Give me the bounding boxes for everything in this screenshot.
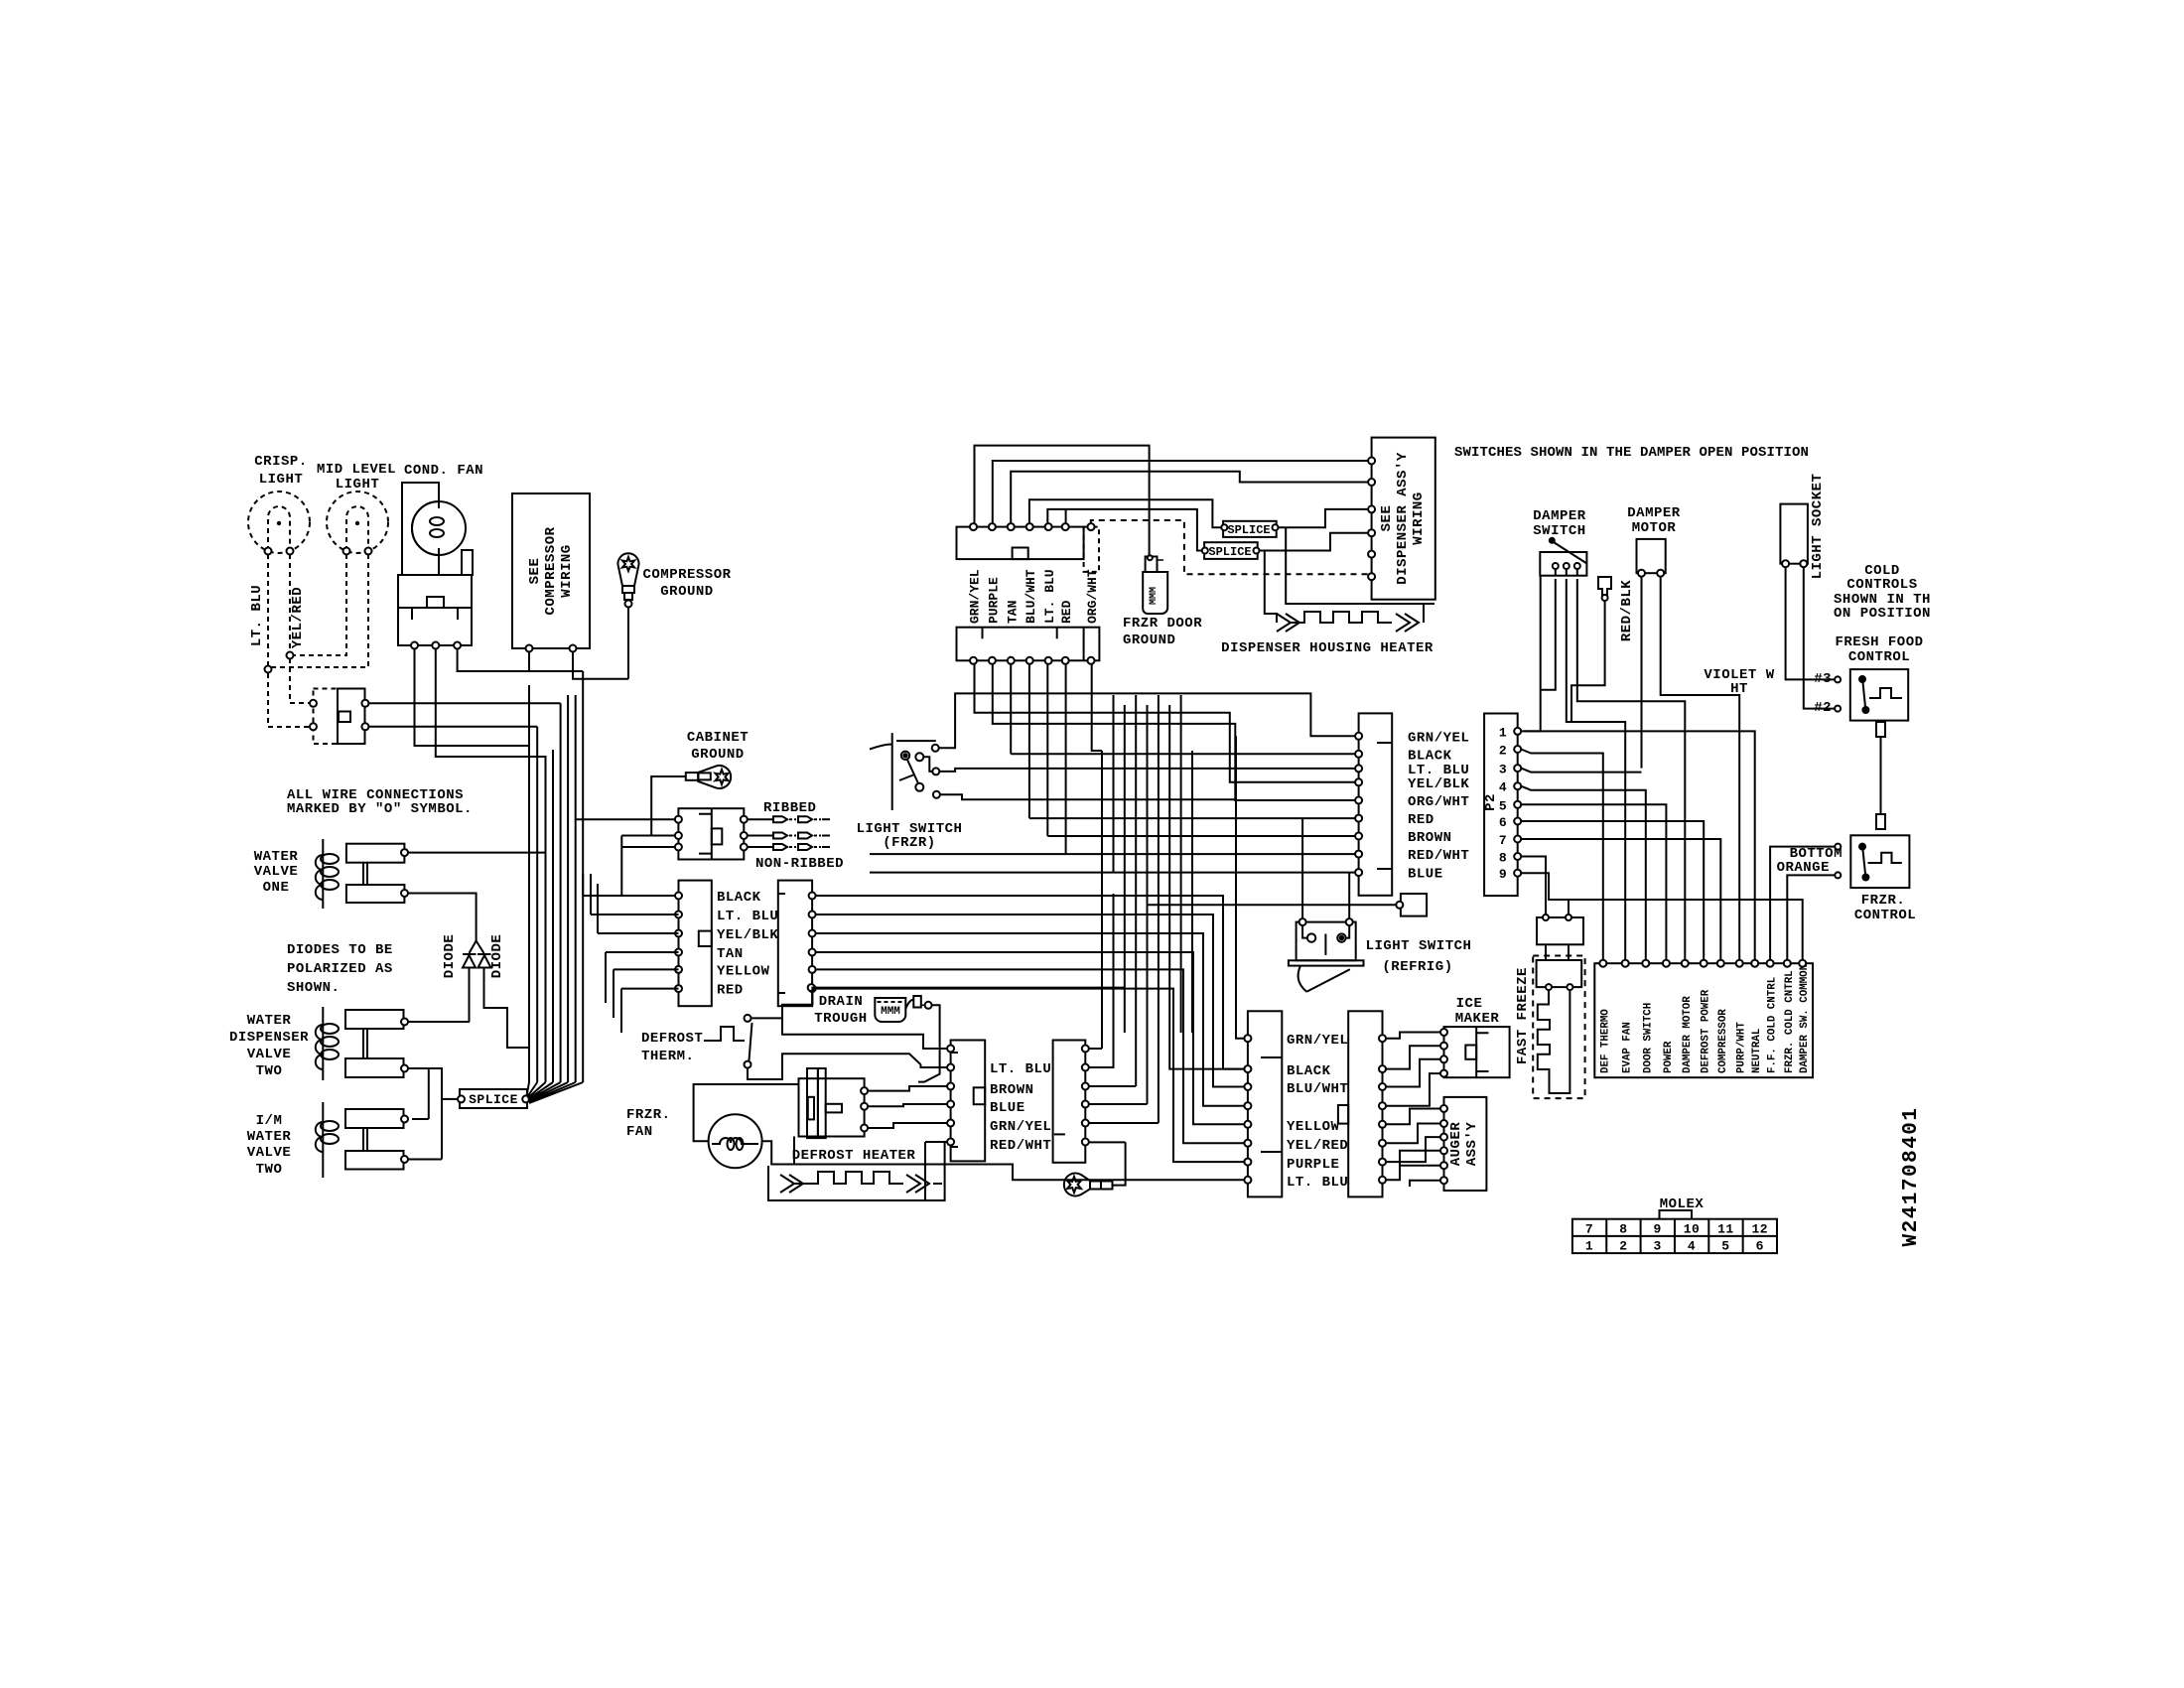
svg-text:2: 2 [1619, 1239, 1627, 1254]
molex table [1572, 1219, 1777, 1253]
evap conn right terminal 2 [1082, 1064, 1089, 1071]
P2 pin 7 number [1499, 833, 1507, 848]
wire c7 down [1092, 664, 1102, 751]
freezer harness right terminal 1 [1379, 1035, 1386, 1042]
board pin label FRZR. COLD CNTRL [1784, 970, 1796, 1073]
wire evap out 4 [1089, 1103, 1148, 1105]
i/m water valve two terminal 2 [401, 1156, 408, 1163]
P2 pin 2 terminal [1514, 746, 1521, 753]
ribbed conn terminal L1 [675, 816, 682, 823]
board pin terminal DEF THERMO [1599, 960, 1606, 967]
wire bundle splice fan [527, 1082, 584, 1103]
relay terminal 3 [454, 642, 461, 649]
svg-text:POWER: POWER [1663, 1041, 1675, 1073]
wire damper sw t3b [1577, 579, 1686, 960]
svg-text:WIRING: WIRING [1411, 492, 1427, 544]
board pin label DAMPER SW. COMMON [1799, 964, 1811, 1073]
P2 pin 5 number [1499, 798, 1507, 813]
molex cell 11 [1717, 1222, 1734, 1237]
control board box [1594, 963, 1813, 1077]
dispenser box terminal 3 [1368, 505, 1375, 512]
frzr control box [1850, 835, 1909, 888]
node therm junction [808, 984, 815, 991]
svg-text:DIODES TO BE: DIODES TO BE [287, 942, 393, 958]
splice 1 terminal L [1221, 524, 1227, 530]
wire branch yellow [614, 969, 679, 1018]
svg-text:DOOR SWITCH: DOOR SWITCH [1642, 1003, 1654, 1073]
switch terminal left 2 [310, 723, 317, 730]
wire splice2 to disp [1260, 533, 1369, 551]
svg-text:DAMPER MOTOR: DAMPER MOTOR [1682, 996, 1694, 1073]
evap connector terminal 6 [947, 1139, 954, 1146]
wire p2 pin3 [1521, 769, 1641, 773]
wire bundle verticals [529, 671, 583, 1082]
water valve one terminal 2 [401, 890, 408, 897]
molex cell 4 [1688, 1239, 1696, 1254]
wire harness row8 [870, 853, 1355, 855]
wire im 1 [1386, 1033, 1440, 1039]
damper switch label [1533, 508, 1586, 539]
door harness terminal 8 [1355, 851, 1362, 858]
svg-text:LT. BLU: LT. BLU [717, 909, 778, 924]
see dispenser assy wiring box [1372, 438, 1435, 600]
auger terminal 4 [1440, 1147, 1447, 1154]
wire au 2 [1386, 1124, 1440, 1144]
cond fan label [404, 463, 483, 479]
freezer harness left terminal 6 [1244, 1140, 1251, 1147]
svg-text:12: 12 [1751, 1222, 1768, 1237]
wire im 2 [1386, 1046, 1440, 1068]
svg-text:COND. FAN: COND. FAN [404, 463, 483, 479]
svg-text:SWITCH: SWITCH [1533, 523, 1585, 539]
water dispenser valve two terminal 1 [401, 1019, 408, 1026]
switch terminal right 1 [361, 700, 368, 707]
light switch refrig label [1366, 938, 1472, 954]
P2 pin 1 number [1499, 725, 1507, 740]
svg-text:W241708401: W241708401 [1900, 1106, 1923, 1246]
top conn wire label PURPLE [986, 577, 1001, 624]
svg-text:WATER: WATER [247, 1129, 292, 1145]
door harness terminal 3 [1355, 765, 1362, 772]
evap connector terminal 5 [947, 1120, 954, 1127]
svg-text:LIGHT SWITCH: LIGHT SWITCH [1366, 938, 1472, 954]
svg-text:ORG/WHT: ORG/WHT [1408, 794, 1469, 810]
evap connector terminal 4 [947, 1101, 954, 1108]
drain trough heater [875, 996, 931, 1022]
board pin label DOOR SWITCH [1642, 1003, 1654, 1073]
node crisp-mid junction A [287, 652, 294, 659]
wire top t2 to disp [993, 461, 1369, 523]
light switch frzr symbol [870, 733, 940, 810]
note all wire connections [287, 787, 473, 817]
board pin label DEF THERMO [1599, 1009, 1611, 1073]
light socket terminal 2 [1800, 560, 1807, 567]
frzr control label [1854, 893, 1916, 923]
top conn wire label GRN/YEL [968, 569, 983, 624]
door harness terminal 5 [1355, 797, 1362, 804]
dispenser housing heater label [1221, 640, 1433, 656]
frzr fan label [626, 1107, 671, 1140]
wire yel/blk run [816, 933, 1245, 1106]
auger terminal 3 [1440, 1134, 1447, 1141]
svg-text:SEE: SEE [527, 558, 543, 585]
wire harness row7 [1047, 835, 1355, 837]
svg-text:TAN: TAN [1005, 601, 1020, 624]
wire disp heater left [1265, 551, 1277, 624]
svg-text:THERM.: THERM. [641, 1049, 694, 1064]
svg-text:4: 4 [1688, 1239, 1696, 1254]
ice maker label [1455, 996, 1500, 1027]
wire harness row6 [1029, 817, 1355, 819]
P2 pin 8 number [1499, 851, 1507, 866]
ice maker terminal 3 [1440, 1055, 1447, 1062]
cabinet light switch dashed box [314, 689, 339, 745]
evap connector terminal 2 [947, 1064, 954, 1071]
door harness terminal 6 [1355, 815, 1362, 822]
node crisp-mid junction B [265, 666, 272, 673]
wire valve2 bottom right 2 [408, 1068, 442, 1160]
svg-text:3: 3 [1654, 1239, 1662, 1254]
P2 pin 5 terminal [1514, 801, 1521, 808]
defrost heater block terminal 3 [861, 1125, 868, 1132]
svg-text:RED/WHT: RED/WHT [1408, 848, 1469, 864]
svg-text:VALVE: VALVE [247, 1145, 292, 1161]
wire harness row2 [1011, 753, 1355, 755]
red/blk label [1619, 580, 1635, 641]
board pin terminal DOOR SWITCH [1642, 960, 1649, 967]
dispenser housing heater element [1277, 612, 1419, 632]
wire valve2 bottom right [408, 1068, 429, 1119]
pre fast-freeze box [1537, 917, 1583, 944]
dispenser door conn top terminal 5 [1045, 523, 1052, 530]
P2 pin 7 terminal [1514, 836, 1521, 843]
svg-text:1: 1 [1585, 1239, 1593, 1254]
board pin label EVAP FAN [1622, 1022, 1634, 1073]
fast freeze terminal 2 [1567, 984, 1572, 990]
harness conn right terminal 6 [809, 985, 816, 992]
wire heater t1 right [868, 1086, 947, 1091]
wire evap out 1 [1089, 1048, 1102, 1050]
wire ribbed conn left feeds [575, 819, 675, 835]
svg-text:NEUTRAL: NEUTRAL [1751, 1029, 1763, 1073]
harness wire labels [717, 890, 778, 999]
see compressor terminal 2 [570, 645, 577, 652]
fast freeze label [1515, 967, 1531, 1064]
wire splice1 to disp [1279, 509, 1434, 604]
ribbed conn terminal L3 [675, 844, 682, 851]
evap conn right terminal 4 [1082, 1101, 1089, 1108]
svg-text:9: 9 [1654, 1222, 1662, 1237]
diode 1 label [442, 934, 458, 979]
top conn wire label LT. BLU [1042, 569, 1057, 624]
ice maker terminal 1 [1440, 1029, 1447, 1036]
harness conn right terminal 4 [809, 949, 816, 956]
svg-text:7: 7 [1499, 833, 1507, 848]
P2 pin 3 number [1499, 763, 1507, 777]
P2 pin 8 terminal [1514, 853, 1521, 860]
wire heater elem right up [944, 1142, 946, 1184]
light socket terminal 1 [1782, 560, 1789, 567]
svg-text:LIGHT: LIGHT [336, 477, 380, 492]
svg-text:TAN: TAN [717, 946, 744, 962]
top conn wire label RED [1059, 600, 1074, 624]
svg-text:11: 11 [1717, 1222, 1734, 1237]
splice box top 1 [1223, 521, 1277, 537]
molex cell 7 [1585, 1222, 1593, 1237]
P2 box [1484, 714, 1518, 897]
svg-text:PURPLE: PURPLE [986, 577, 1001, 624]
i/m water valve two label [247, 1113, 292, 1178]
evap connector terminal 1 [947, 1046, 954, 1053]
dispenser box terminal 5 [1368, 551, 1375, 558]
svg-text:BROWN: BROWN [1408, 830, 1452, 846]
svg-text:CONTROL: CONTROL [1854, 908, 1916, 923]
freezer harness left terminal 1 [1244, 1035, 1251, 1042]
violet wht label [1704, 667, 1774, 697]
svg-text:6: 6 [1756, 1239, 1764, 1254]
svg-text:RED/WHT: RED/WHT [990, 1138, 1051, 1154]
wire branch tan [606, 952, 679, 1003]
svg-text:DRAIN: DRAIN [819, 994, 864, 1010]
svg-text:4: 4 [1499, 780, 1507, 795]
evap connector labels [990, 1061, 1051, 1154]
wire au 3 [1386, 1137, 1440, 1162]
svg-text:DAMPER: DAMPER [1627, 505, 1681, 521]
svg-text:1: 1 [1499, 725, 1507, 740]
damper motor box [1637, 539, 1666, 573]
wire im 4 [1386, 1073, 1440, 1106]
freezer harness left terminal 8 [1244, 1177, 1251, 1184]
svg-text:WATER: WATER [254, 849, 299, 865]
wire evap out 6 [1089, 1141, 1126, 1143]
svg-text:8: 8 [1499, 851, 1507, 866]
svg-text:(FRZR): (FRZR) [883, 835, 935, 851]
wire im 3 [1386, 1059, 1440, 1087]
see dispenser assy text [1379, 452, 1427, 585]
splice left terminal [458, 1095, 465, 1102]
svg-text:PURP/WHT: PURP/WHT [1736, 1022, 1748, 1073]
svg-text:LT. BLU: LT. BLU [249, 585, 265, 646]
svg-text:FRZR.: FRZR. [626, 1107, 671, 1123]
fast freeze terminal 1 [1546, 984, 1552, 990]
harness conn left terminal 4 [675, 949, 682, 956]
svg-text:LT. BLU: LT. BLU [990, 1061, 1051, 1077]
molex cell 2 [1619, 1239, 1627, 1254]
freezer harness right terminal 2 [1379, 1065, 1386, 1072]
svg-text:ORANGE: ORANGE [1777, 860, 1830, 876]
i/m water valve two terminal 1 [401, 1116, 408, 1123]
freezer harness right terminal 3 [1379, 1083, 1386, 1090]
wire switch out1 right [368, 702, 560, 704]
svg-text:DISPENSER ASS'Y: DISPENSER ASS'Y [1395, 452, 1411, 585]
svg-text:BLU/WHT: BLU/WHT [1024, 569, 1038, 624]
svg-text:VALVE: VALVE [247, 1047, 292, 1062]
relay terminal 1 [411, 642, 418, 649]
svg-text:DAMPER: DAMPER [1533, 508, 1586, 524]
pre fast-freeze terminal 1 [1543, 914, 1549, 920]
wire p2 pin2 [1521, 750, 1603, 960]
svg-text:7: 7 [1585, 1222, 1593, 1237]
wire mid left dashed [293, 554, 346, 655]
evap connector right box [1053, 1041, 1086, 1163]
dispenser door conn top terminal 1 [970, 523, 977, 530]
molex cell 9 [1654, 1222, 1662, 1237]
wire evap conn internal 6 [925, 1142, 947, 1200]
wire p2 pin9 [1521, 873, 1803, 960]
wire therm bottom right [748, 1054, 947, 1079]
svg-text:COMPRESSOR: COMPRESSOR [642, 567, 731, 583]
cabinet ground label [687, 730, 749, 763]
freezer harness right terminal 4 [1379, 1102, 1386, 1109]
dispenser door conn bottom terminal 3 [1008, 657, 1015, 664]
fresh food control box [1850, 669, 1908, 721]
harness conn right terminal 3 [809, 930, 816, 937]
part number [1900, 1106, 1923, 1246]
wire ff cold cntrl [1770, 847, 1835, 960]
svg-text:SWITCHES SHOWN IN THE DAMPER O: SWITCHES SHOWN IN THE DAMPER OPEN POSITI… [1454, 445, 1809, 461]
P2 pin 2 number [1499, 744, 1507, 759]
wire mid right dashed [271, 554, 368, 667]
svg-text:AUGER: AUGER [1448, 1122, 1464, 1167]
dispenser door connector bottom box [957, 628, 1100, 661]
svg-text:8: 8 [1619, 1222, 1627, 1237]
red/blk plug [1598, 577, 1611, 601]
wire branch red [621, 989, 679, 1033]
freezer harness left terminal 2 [1244, 1065, 1251, 1072]
wire evap out 2 [1089, 894, 1114, 1067]
molex cell 5 [1721, 1239, 1729, 1254]
svg-text:VALVE: VALVE [254, 864, 299, 880]
light switch refrig label2 [1382, 959, 1452, 975]
frzr fan motor [709, 1114, 762, 1168]
ribbed conn terminal R2 [741, 832, 748, 839]
ice maker box [1444, 1027, 1510, 1077]
splice right terminal [522, 1095, 529, 1102]
wire dashed to switch t1 [290, 658, 311, 703]
svg-text:TWO: TWO [256, 1162, 283, 1178]
dispenser door conn bottom terminal 2 [989, 657, 996, 664]
wire cabinet ground left [621, 776, 686, 896]
svg-text:DEFROST: DEFROST [641, 1031, 703, 1047]
evap connector terminal 3 [947, 1083, 954, 1090]
ice maker terminal 2 [1440, 1043, 1447, 1050]
svg-text:YEL/BLK: YEL/BLK [717, 927, 778, 943]
svg-text:ON POSITION: ON POSITION [1834, 606, 1931, 622]
freezer harness right terminal 7 [1379, 1159, 1386, 1166]
wire red run [816, 989, 1245, 1163]
svg-text:RED: RED [1059, 600, 1074, 624]
harness conn left terminal 2 [675, 912, 682, 918]
wire tan run [816, 952, 1245, 1124]
svg-text:9: 9 [1499, 867, 1507, 882]
defrost thermostat [704, 1015, 752, 1068]
freezer harness right terminal 6 [1379, 1140, 1386, 1147]
svg-text:FRZR. COLD CNTRL: FRZR. COLD CNTRL [1784, 970, 1796, 1073]
wire therm top right [751, 988, 1125, 1049]
molex label [1660, 1196, 1705, 1212]
switches note [1454, 445, 1809, 461]
svg-text:5: 5 [1499, 798, 1507, 813]
freezer harness left terminal 3 [1244, 1083, 1251, 1090]
svg-text:CABINET: CABINET [687, 730, 749, 746]
crisper light label [254, 454, 307, 488]
wire c4 down [1028, 664, 1030, 818]
light switch frzr label [857, 821, 963, 837]
splice 2 terminal R [1254, 548, 1260, 554]
water dispenser valve two body [345, 1010, 404, 1077]
splice box left [460, 1089, 527, 1108]
defrost heater block [799, 1068, 865, 1138]
wire crisp left dashed [267, 554, 269, 667]
wire lt.blu label [249, 585, 265, 646]
svg-text:CONTROL: CONTROL [1848, 649, 1910, 665]
board pin terminal NEUTRAL [1751, 960, 1758, 967]
dispenser door conn top terminal 2 [989, 523, 996, 530]
svg-text:FRESH FOOD: FRESH FOOD [1835, 634, 1923, 650]
wire compressor ground down [573, 608, 628, 679]
wire evap out 5 [1089, 1122, 1159, 1124]
svg-text:P2: P2 [1483, 793, 1499, 811]
molex cell 1 [1585, 1239, 1593, 1254]
svg-text:GROUND: GROUND [691, 747, 744, 763]
board pin terminal PURP/WHT [1736, 960, 1743, 967]
wire crisp right dashed [289, 554, 291, 652]
evap conn right terminal 6 [1082, 1139, 1089, 1146]
wire damper motor t1 [1642, 577, 1740, 960]
freezer harness left terminal 5 [1244, 1121, 1251, 1128]
svg-text:FAN: FAN [626, 1124, 653, 1140]
svg-text:SEE: SEE [1379, 505, 1395, 532]
svg-text:F.F. COLD CNTRL: F.F. COLD CNTRL [1767, 977, 1779, 1073]
light switch frzr label2 [883, 835, 935, 851]
see compressor terminal 1 [526, 645, 533, 652]
board pin terminal POWER [1663, 960, 1670, 967]
wire top t3 to disp [1011, 472, 1368, 523]
wire evap out 3 [1089, 1085, 1136, 1087]
mid level light lamp [327, 492, 388, 555]
door harness connector box [1359, 713, 1393, 895]
wire grn/yel row1 [939, 693, 1355, 1038]
i/m water valve two body [345, 1109, 404, 1170]
board pin label COMPRESSOR [1717, 1009, 1729, 1073]
molex cell 10 [1684, 1222, 1701, 1237]
ribbed conn terminal L2 [675, 832, 682, 839]
evap conn right terminal 5 [1082, 1120, 1089, 1127]
svg-text:5: 5 [1721, 1239, 1729, 1254]
svg-text:10: 10 [1684, 1222, 1701, 1237]
wire frzr cold cntrl [1787, 875, 1835, 959]
board pin label DAMPER MOTOR [1682, 996, 1694, 1073]
auger terminal 2 [1440, 1120, 1447, 1127]
svg-text:DIODE: DIODE [489, 934, 505, 979]
svg-text:YEL/RED: YEL/RED [1287, 1138, 1348, 1154]
svg-text:GRN/YEL: GRN/YEL [1408, 730, 1469, 746]
water valve one body [346, 844, 405, 903]
dispenser door conn top terminal 6 [1062, 523, 1069, 530]
svg-text:WIRING: WIRING [559, 544, 575, 597]
svg-text:2: 2 [1499, 744, 1507, 759]
ff control terminal 2 [1814, 700, 1841, 716]
dispenser door conn top terminal 7 [1088, 523, 1095, 530]
svg-text:LIGHT: LIGHT [259, 472, 304, 488]
svg-text:DEFROST HEATER: DEFROST HEATER [792, 1148, 916, 1164]
wire harness row4 [975, 664, 1356, 782]
wire c3 down [1010, 664, 1012, 755]
see compressor wiring text [527, 526, 575, 615]
auger ground lug [1064, 1142, 1126, 1196]
board pin label DEFROST POWER [1701, 989, 1712, 1073]
top conn wire label ORG/WHT [1085, 569, 1100, 624]
